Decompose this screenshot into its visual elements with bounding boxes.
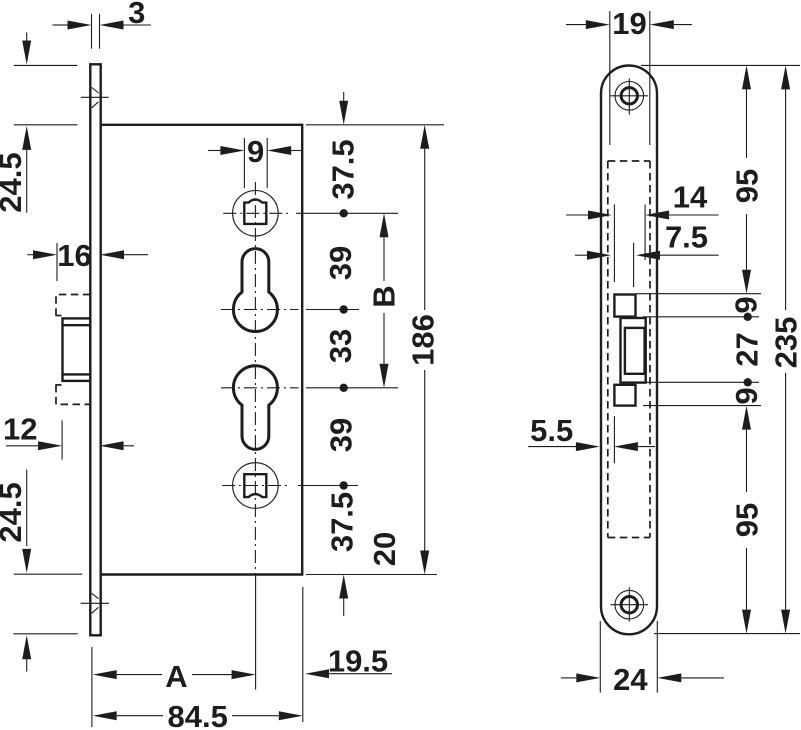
dimension 16 xyxy=(27,238,148,281)
profile cylinder hole lower xyxy=(233,366,277,450)
svg-text:24.5: 24.5 xyxy=(0,482,28,542)
extension lines right side xyxy=(636,65,800,633)
cutout edge extension lines xyxy=(614,204,645,463)
svg-text:235: 235 xyxy=(768,317,801,369)
svg-text:95: 95 xyxy=(730,169,765,203)
svg-text:27: 27 xyxy=(730,332,765,366)
svg-text:7.5: 7.5 xyxy=(665,219,708,254)
screw hole top xyxy=(611,78,649,115)
vertical centerline xyxy=(254,182,256,690)
faceplate cutout upper xyxy=(614,295,635,317)
dimension 7.5 xyxy=(575,219,719,259)
centerline spindle hole top xyxy=(223,212,398,214)
dimension 95 bottom xyxy=(730,406,765,634)
lock case hidden outline (dashed) xyxy=(608,161,650,538)
dimension A (backset) xyxy=(92,647,256,727)
svg-text:9: 9 xyxy=(729,296,764,313)
dimension 24 xyxy=(561,621,724,697)
svg-text:39: 39 xyxy=(323,246,358,280)
latch cutout dashed top (side view) xyxy=(56,295,90,316)
svg-text:19.5: 19.5 xyxy=(328,644,388,679)
latch cutout dashed bottom (side view) xyxy=(55,384,61,386)
latch bolt (side view) xyxy=(63,318,91,381)
svg-text:14: 14 xyxy=(673,180,708,215)
svg-text:9: 9 xyxy=(729,387,764,404)
dimension B xyxy=(367,213,402,387)
svg-text:A: A xyxy=(165,659,187,694)
chain 9 / 27 / 9 xyxy=(729,296,765,404)
svg-text:5.5: 5.5 xyxy=(530,413,573,448)
dimension 9 (spindle square) xyxy=(208,134,302,188)
svg-text:16: 16 xyxy=(57,238,91,273)
dimension 95 top xyxy=(730,65,765,293)
centerline cylinder hole 2 xyxy=(221,387,398,389)
svg-text:33: 33 xyxy=(323,329,358,363)
lock case outline xyxy=(101,125,303,575)
faceplate cutout middle xyxy=(621,318,646,383)
dimension 24.5 bottom xyxy=(0,470,82,672)
centerline cylinder hole 1 xyxy=(221,309,359,311)
svg-text:95: 95 xyxy=(730,503,765,537)
dimension 19.5 xyxy=(303,587,392,722)
svg-text:24: 24 xyxy=(613,662,648,697)
screw hole bottom xyxy=(611,587,649,622)
svg-text:B: B xyxy=(367,285,402,307)
dimension 19 xyxy=(566,6,692,145)
svg-text:19: 19 xyxy=(612,6,646,41)
centerline spindle hole bottom xyxy=(222,485,358,487)
dimension 84.5 xyxy=(93,699,303,730)
break mark top xyxy=(81,88,109,108)
svg-text:9: 9 xyxy=(247,134,264,169)
dimension 5.5 xyxy=(528,413,655,451)
svg-text:37.5: 37.5 xyxy=(325,492,360,552)
dimension 14 xyxy=(566,180,719,220)
svg-text:39: 39 xyxy=(324,418,359,452)
break mark bottom xyxy=(81,593,109,613)
svg-text:12: 12 xyxy=(3,411,37,446)
profile cylinder hole upper xyxy=(233,249,277,332)
dimension 12 xyxy=(3,411,134,459)
chain dimension column 37.5/39/33/39/37.5 xyxy=(323,92,361,616)
svg-text:37.5: 37.5 xyxy=(326,139,361,199)
dimension 3 (faceplate thickness) xyxy=(52,0,151,49)
spindle hole bottom (circle + square follower) xyxy=(233,463,279,509)
svg-text:24.5: 24.5 xyxy=(0,152,28,212)
faceplate cutout lower xyxy=(614,385,635,406)
faceplate front outline xyxy=(601,66,657,635)
dimension 186 xyxy=(306,125,444,575)
svg-text:186: 186 xyxy=(406,314,441,366)
faceplate edge (side view strip) xyxy=(90,64,100,635)
svg-text:84.5: 84.5 xyxy=(168,699,228,730)
dimension 24.5 top xyxy=(0,33,77,213)
deadbolt xyxy=(625,328,645,374)
svg-text:20: 20 xyxy=(367,532,402,566)
svg-text:3: 3 xyxy=(128,0,145,30)
spindle hole top (circle + square follower) xyxy=(233,191,279,237)
dimension 235 xyxy=(768,65,801,633)
